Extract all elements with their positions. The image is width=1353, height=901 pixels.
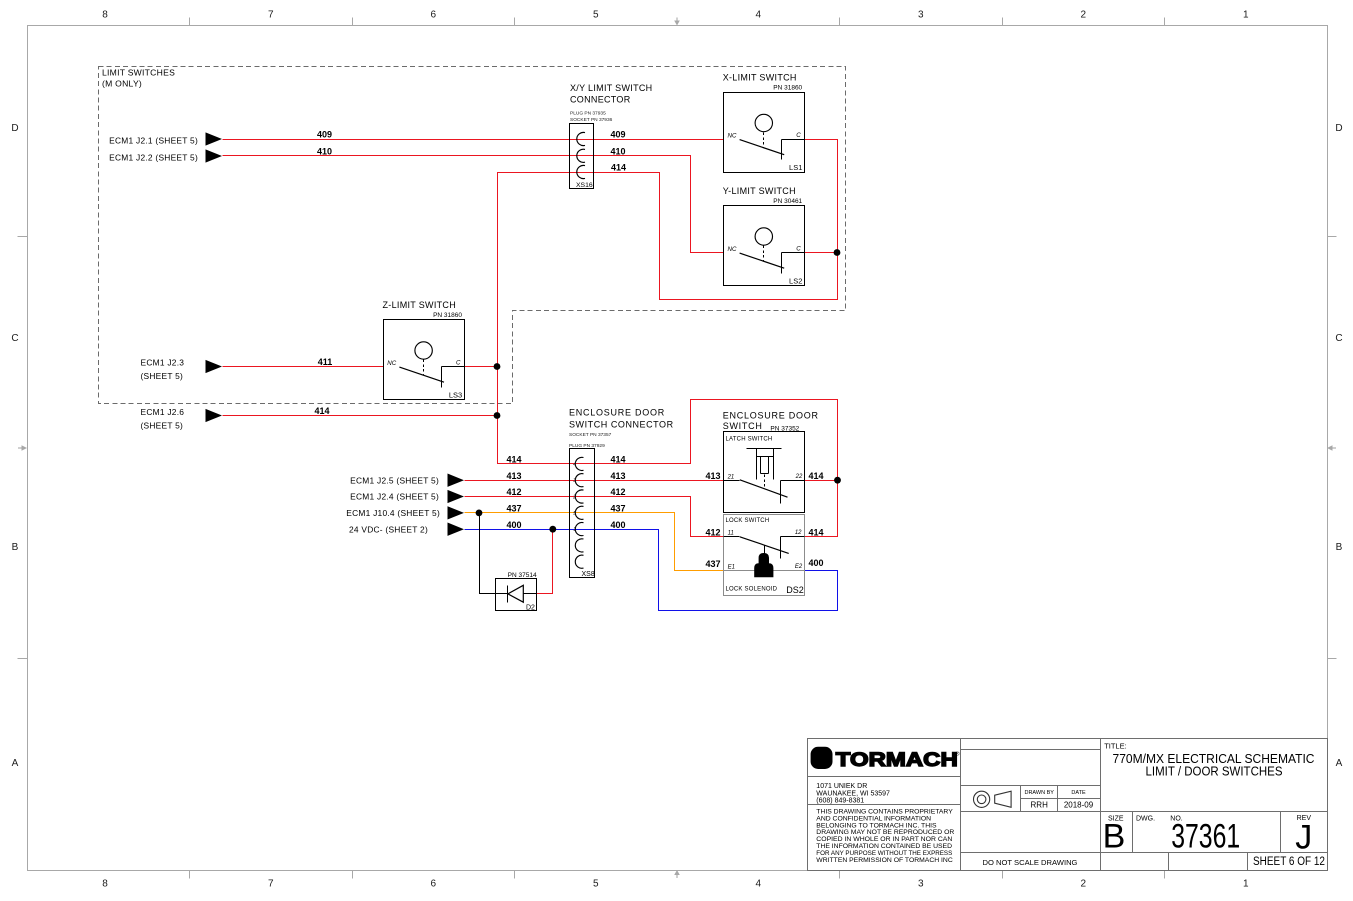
svg-text:CONNECTOR: CONNECTOR bbox=[570, 94, 631, 104]
svg-text:DS2: DS2 bbox=[786, 585, 804, 595]
svg-text:ECM1 J2.3: ECM1 J2.3 bbox=[141, 358, 185, 368]
svg-text:D2: D2 bbox=[526, 604, 535, 611]
svg-text:XS8: XS8 bbox=[582, 571, 595, 578]
svg-text:414: 414 bbox=[314, 406, 329, 416]
svg-text:E2: E2 bbox=[795, 564, 803, 570]
svg-text:SHEET 6 OF 12: SHEET 6 OF 12 bbox=[1253, 856, 1325, 868]
svg-text:5: 5 bbox=[593, 10, 599, 21]
svg-text:409: 409 bbox=[610, 130, 625, 140]
svg-text:D: D bbox=[1335, 123, 1342, 134]
svg-text:6: 6 bbox=[430, 879, 436, 890]
svg-text:ECM1 J10.4 (SHEET 5): ECM1 J10.4 (SHEET 5) bbox=[346, 508, 440, 518]
svg-text:8: 8 bbox=[102, 879, 108, 890]
svg-text:X/Y LIMIT SWITCH: X/Y LIMIT SWITCH bbox=[570, 83, 652, 93]
svg-text:E1: E1 bbox=[728, 564, 735, 570]
svg-text:22: 22 bbox=[795, 474, 803, 480]
svg-text:X-LIMIT SWITCH: X-LIMIT SWITCH bbox=[723, 73, 797, 83]
svg-text:2018-09: 2018-09 bbox=[1064, 800, 1094, 809]
svg-text:411: 411 bbox=[318, 357, 333, 367]
svg-text:LIMIT / DOOR SWITCHES: LIMIT / DOOR SWITCHES bbox=[1146, 763, 1283, 778]
svg-text:5: 5 bbox=[593, 879, 599, 890]
svg-text:413: 413 bbox=[610, 471, 625, 481]
svg-text:SWITCH: SWITCH bbox=[723, 421, 763, 431]
svg-text:400: 400 bbox=[809, 558, 824, 568]
svg-text:ECM1 J2.5 (SHEET 5): ECM1 J2.5 (SHEET 5) bbox=[350, 475, 439, 485]
svg-text:LATCH SWITCH: LATCH SWITCH bbox=[726, 436, 773, 442]
svg-text:LOCK SOLENOID: LOCK SOLENOID bbox=[726, 586, 778, 592]
svg-text:WAUNAKEE, WI 53597: WAUNAKEE, WI 53597 bbox=[816, 790, 890, 797]
svg-text:D: D bbox=[11, 123, 18, 134]
svg-text:24 VDC- (SHEET 2): 24 VDC- (SHEET 2) bbox=[349, 524, 428, 534]
svg-text:WRITTEN PERMISSION OF TORMACH: WRITTEN PERMISSION OF TORMACH INC bbox=[816, 857, 953, 864]
svg-text:4: 4 bbox=[755, 10, 761, 21]
svg-text:2: 2 bbox=[1080, 879, 1086, 890]
svg-text:12: 12 bbox=[795, 530, 802, 536]
svg-text:Z-LIMIT SWITCH: Z-LIMIT SWITCH bbox=[383, 300, 457, 310]
svg-text:413: 413 bbox=[506, 471, 521, 481]
svg-text:B: B bbox=[12, 542, 19, 553]
svg-text:RRH: RRH bbox=[1031, 800, 1049, 809]
svg-text:C: C bbox=[1335, 333, 1342, 344]
svg-text:1071 UNIEK DR: 1071 UNIEK DR bbox=[816, 783, 867, 790]
svg-text:11: 11 bbox=[728, 531, 734, 537]
svg-text:J: J bbox=[1295, 819, 1312, 857]
svg-text:400: 400 bbox=[610, 520, 625, 530]
svg-text:1: 1 bbox=[1243, 10, 1249, 21]
svg-text:ECM1 J2.1 (SHEET 5): ECM1 J2.1 (SHEET 5) bbox=[109, 135, 198, 145]
svg-text:413: 413 bbox=[705, 471, 720, 481]
svg-text:C: C bbox=[796, 132, 801, 139]
svg-text:1: 1 bbox=[573, 527, 576, 533]
svg-text:DRAWN BY: DRAWN BY bbox=[1024, 790, 1054, 796]
svg-text:PN 31860: PN 31860 bbox=[433, 312, 462, 319]
svg-text:LOCK SWITCH: LOCK SWITCH bbox=[726, 518, 770, 524]
svg-text:410: 410 bbox=[610, 147, 625, 157]
svg-text:(M ONLY): (M ONLY) bbox=[102, 78, 142, 88]
svg-text:B: B bbox=[1336, 542, 1343, 553]
svg-text:LS3: LS3 bbox=[449, 391, 462, 400]
svg-text:PN 31860: PN 31860 bbox=[773, 85, 802, 92]
svg-text:4: 4 bbox=[573, 462, 576, 468]
svg-text:400: 400 bbox=[506, 520, 521, 530]
svg-text:2: 2 bbox=[572, 495, 576, 501]
svg-text:437: 437 bbox=[705, 559, 720, 569]
svg-text:8: 8 bbox=[102, 10, 108, 21]
svg-text:LS1: LS1 bbox=[789, 163, 802, 172]
svg-text:1: 1 bbox=[1243, 879, 1249, 890]
svg-text:414: 414 bbox=[809, 471, 824, 481]
svg-text:C: C bbox=[456, 360, 461, 367]
svg-text:(SHEET 5): (SHEET 5) bbox=[141, 371, 184, 381]
svg-text:LIMIT SWITCHES: LIMIT SWITCHES bbox=[102, 67, 175, 77]
svg-text:Y-LIMIT SWITCH: Y-LIMIT SWITCH bbox=[723, 186, 796, 196]
svg-text:6: 6 bbox=[430, 10, 436, 21]
svg-text:437: 437 bbox=[506, 504, 521, 514]
svg-text:NC: NC bbox=[728, 133, 737, 140]
svg-text:PLUG PN 37929: PLUG PN 37929 bbox=[569, 443, 605, 449]
svg-text:(608) 849-8381: (608) 849-8381 bbox=[816, 798, 864, 805]
svg-text:409: 409 bbox=[317, 130, 332, 140]
svg-text:PLUG PN 37935: PLUG PN 37935 bbox=[570, 110, 606, 116]
svg-text:NC: NC bbox=[387, 360, 396, 367]
svg-text:C: C bbox=[11, 333, 18, 344]
svg-text:7: 7 bbox=[268, 879, 274, 890]
svg-text:21: 21 bbox=[727, 475, 735, 481]
svg-text:TORMACH: TORMACH bbox=[836, 750, 958, 771]
svg-text:SOCKET PN 37357: SOCKET PN 37357 bbox=[569, 432, 612, 438]
svg-text:SOCKET PN 37936: SOCKET PN 37936 bbox=[570, 117, 613, 123]
svg-text:ECM1 J2.4 (SHEET 5): ECM1 J2.4 (SHEET 5) bbox=[350, 492, 439, 502]
svg-text:2: 2 bbox=[1080, 10, 1086, 21]
svg-text:414: 414 bbox=[610, 455, 625, 465]
svg-text:®: ® bbox=[956, 751, 960, 758]
svg-text:A: A bbox=[1336, 758, 1343, 769]
svg-text:SWITCH CONNECTOR: SWITCH CONNECTOR bbox=[569, 420, 674, 430]
svg-text:TITLE:: TITLE: bbox=[1104, 742, 1127, 751]
svg-text:ENCLOSURE DOOR: ENCLOSURE DOOR bbox=[569, 408, 665, 418]
svg-text:7: 7 bbox=[268, 10, 274, 21]
svg-text:LS2: LS2 bbox=[789, 277, 802, 286]
svg-text:XS16: XS16 bbox=[576, 182, 593, 189]
svg-text:3: 3 bbox=[918, 10, 924, 21]
svg-text:412: 412 bbox=[705, 528, 720, 538]
svg-text:DATE: DATE bbox=[1071, 790, 1086, 796]
svg-text:ENCLOSURE DOOR: ENCLOSURE DOOR bbox=[723, 410, 819, 420]
svg-text:DWG.: DWG. bbox=[1136, 815, 1155, 822]
svg-text:4: 4 bbox=[755, 879, 761, 890]
svg-text:410: 410 bbox=[317, 147, 332, 157]
svg-text:(SHEET 5): (SHEET 5) bbox=[141, 421, 184, 431]
svg-text:412: 412 bbox=[610, 487, 625, 497]
svg-text:ECM1 J2.6: ECM1 J2.6 bbox=[141, 407, 185, 417]
svg-text:A: A bbox=[12, 758, 19, 769]
svg-text:3: 3 bbox=[918, 879, 924, 890]
svg-text:437: 437 bbox=[610, 504, 625, 514]
svg-text:412: 412 bbox=[506, 487, 521, 497]
svg-text:37361: 37361 bbox=[1171, 818, 1240, 856]
svg-text:NC: NC bbox=[728, 246, 737, 253]
svg-text:B: B bbox=[1103, 818, 1126, 856]
svg-text:PN 30461: PN 30461 bbox=[773, 198, 802, 205]
svg-text:414: 414 bbox=[611, 163, 626, 173]
svg-text:DO NOT SCALE DRAWING: DO NOT SCALE DRAWING bbox=[983, 858, 1078, 867]
svg-text:414: 414 bbox=[506, 455, 521, 465]
svg-text:C: C bbox=[796, 246, 801, 253]
svg-text:414: 414 bbox=[809, 528, 824, 538]
svg-text:ECM1 J2.2 (SHEET 5): ECM1 J2.2 (SHEET 5) bbox=[109, 152, 198, 162]
